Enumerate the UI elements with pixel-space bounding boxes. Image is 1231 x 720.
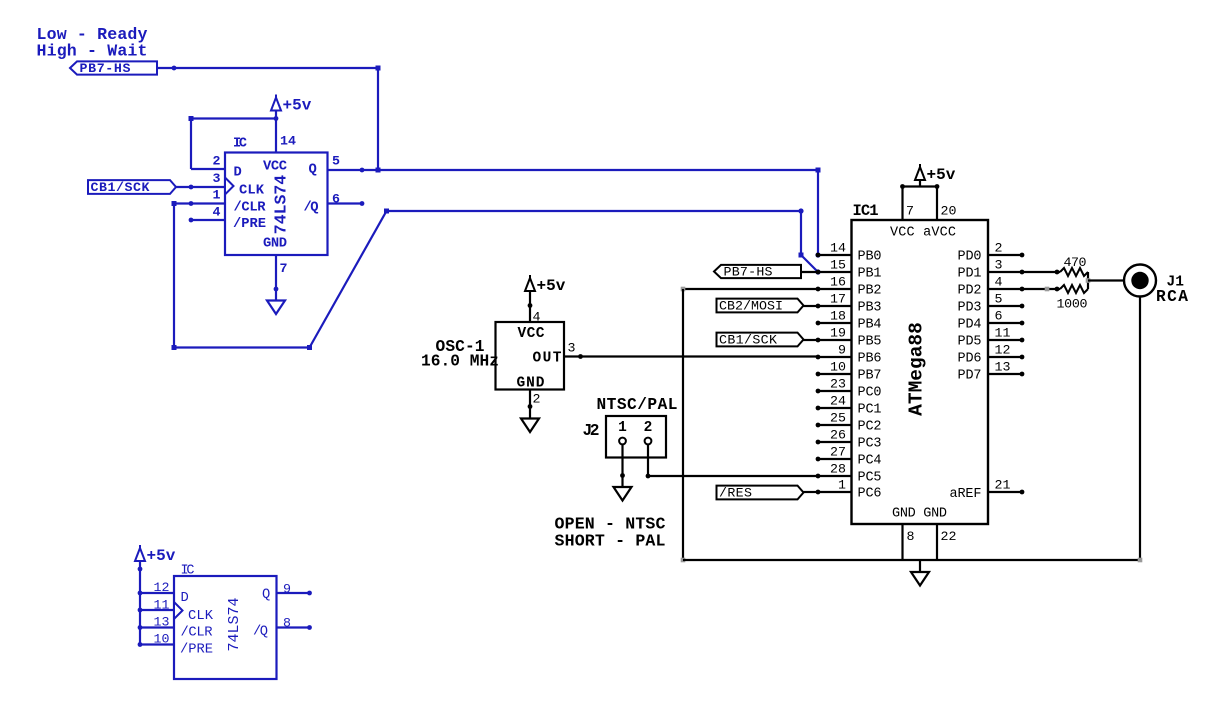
svg-text:/CLR: /CLR [234, 200, 267, 216]
FF1 clock triangle [225, 178, 234, 195]
pin7 number [906, 204, 914, 219]
label NTSC/PAL [597, 396, 678, 414]
svg-text:27: 27 [830, 445, 846, 460]
FF1 pin4 number [213, 205, 221, 220]
svg-text:PB0: PB0 [858, 250, 882, 265]
pin20 number [941, 204, 957, 219]
FF2 CLK label [188, 609, 214, 624]
power +5v OSC [525, 275, 566, 295]
svg-text:21: 21 [995, 478, 1011, 493]
wire FF1 pin5 Q output [328, 168, 819, 173]
svg-text:16: 16 [830, 275, 846, 290]
svg-text:/Q: /Q [253, 624, 268, 640]
wire PD1 to R1 [1022, 270, 1060, 275]
wire /CLR to PB1 horizontal [387, 208, 804, 213]
svg-text:74LS74: 74LS74 [226, 597, 243, 651]
wire vertical PB7-HS down to Q net [377, 68, 379, 170]
svg-text:4: 4 [995, 275, 1003, 290]
svg-text:PC5: PC5 [858, 471, 882, 486]
pin 23 PC0 stub [816, 377, 882, 401]
svg-text:PB4: PB4 [858, 318, 882, 333]
svg-text:10: 10 [154, 632, 170, 647]
svg-text:13: 13 [995, 360, 1011, 375]
pin 19 PB5 stub [816, 326, 882, 350]
mcu aREF label [950, 487, 982, 502]
FF2 clock triangle [174, 602, 183, 619]
wire OSC pin2 GND stub [528, 390, 533, 419]
74LS74 value FF2 (rotated) [226, 597, 243, 651]
svg-text:PD2: PD2 [958, 284, 982, 299]
svg-text:CB1/SCK: CB1/SCK [91, 180, 150, 195]
svg-text:11: 11 [995, 326, 1011, 341]
ground ATMega [911, 572, 929, 586]
FF1 pin7 number [280, 261, 288, 276]
pin 25 PC2 stub [816, 411, 882, 435]
FF1 pin1 number [213, 188, 221, 203]
pin 6 PD4 stub [958, 309, 1025, 333]
svg-text:+5v: +5v [537, 277, 566, 295]
pin 13 PD7 stub [958, 360, 1025, 384]
svg-text:PB5: PB5 [858, 335, 882, 350]
svg-text:9: 9 [838, 343, 846, 358]
svg-text:18: 18 [830, 309, 846, 324]
svg-text:2: 2 [995, 241, 1003, 256]
net flag CB1/SCK (left) [88, 180, 176, 195]
ground OSC [521, 419, 539, 433]
svg-text:7: 7 [280, 261, 288, 276]
svg-text:PB7: PB7 [858, 369, 882, 384]
wire J2 pin1 to ground [620, 445, 625, 488]
svg-text:12: 12 [154, 580, 170, 595]
wire FF2 pin12 D [138, 591, 174, 596]
svg-text:VCC aVCC: VCC aVCC [890, 226, 956, 241]
wire FF1 pin7 GND stub [274, 255, 279, 301]
svg-text:PD4: PD4 [958, 318, 982, 333]
pin 1 PC6 stub [816, 478, 882, 502]
svg-text:/PRE: /PRE [233, 216, 266, 232]
svg-text:PC4: PC4 [858, 454, 882, 469]
label J1 [1167, 275, 1185, 291]
wire FF1 pin2 D [191, 168, 225, 170]
wire FF2 pin9 Q stub [277, 591, 312, 596]
power +5v ATMega [915, 164, 956, 187]
node corner PB2 bottom [681, 558, 686, 563]
svg-text:PB2: PB2 [858, 284, 882, 299]
svg-text:4: 4 [213, 205, 221, 220]
net flag /RES [717, 486, 819, 501]
svg-text:13: 13 [154, 615, 170, 630]
wire PB2 to left [683, 288, 818, 290]
node vertex PD2 wire [1045, 287, 1050, 292]
svg-text:14: 14 [280, 134, 296, 149]
svg-text:24: 24 [830, 394, 846, 409]
wire J2 pin2 to PC5 [648, 475, 818, 477]
FF1 VCC label [263, 160, 287, 175]
note text Low-Ready High-Wait [37, 25, 148, 61]
op FF IC 74LS74 U2 box [174, 576, 277, 679]
svg-text:aREF: aREF [950, 487, 982, 502]
svg-text:IC: IC [181, 564, 195, 579]
FF2 pin12 number [154, 580, 170, 595]
svg-text:PC2: PC2 [858, 420, 882, 435]
wire down to diagonal PB1 [799, 211, 804, 258]
label J2 designator [583, 422, 600, 440]
net flag CB1/SCK (at PB5) [717, 333, 819, 348]
svg-text:1000: 1000 [1057, 297, 1088, 312]
svg-text:11: 11 [154, 598, 170, 613]
pin 15 PB1 stub [816, 258, 882, 282]
svg-text:20: 20 [941, 204, 957, 219]
FF1 /Q label [304, 200, 319, 216]
svg-text:OUT: OUT [533, 351, 562, 367]
74LS74 value FF1 (rotated) [272, 175, 291, 235]
resistor 470 [1060, 255, 1088, 276]
FF1 pin5 number [332, 154, 340, 169]
power +5v FF1 [271, 95, 312, 115]
FF1 pin3 number [213, 171, 221, 186]
svg-text:10: 10 [830, 360, 846, 375]
OSC OUT label [533, 351, 562, 367]
pin 10 PB7 stub [816, 360, 882, 384]
OSC pin3 number [568, 341, 576, 356]
FF2 /PRE label [180, 642, 213, 658]
svg-text:/CLR: /CLR [181, 625, 213, 641]
svg-text:14: 14 [830, 241, 846, 256]
pin 12 PD6 stub [958, 343, 1025, 367]
pin 5 PD3 stub [958, 292, 1025, 316]
pin 16 PB2 stub [816, 275, 882, 299]
wire resistor join vertical [1087, 272, 1089, 289]
svg-text:17: 17 [830, 292, 846, 307]
oscillator OSC-1 box [496, 322, 565, 390]
svg-text:VCC: VCC [263, 160, 287, 175]
svg-text:PD0: PD0 [958, 250, 982, 265]
FF2 pin10 number [154, 632, 170, 647]
svg-text:2: 2 [213, 154, 221, 169]
pin 17 PB3 stub [816, 292, 882, 316]
wire /CLR diagonal [310, 209, 390, 348]
OSC pin2 number [533, 392, 541, 407]
svg-text:9: 9 [283, 582, 291, 597]
svg-text:GND GND: GND GND [892, 507, 947, 522]
wire FF2 pin10 /PRE [138, 642, 174, 647]
svg-text:1: 1 [618, 420, 627, 436]
svg-text:PB1: PB1 [858, 267, 882, 282]
wire PB7-HS flag to corner [157, 66, 378, 71]
pin 14 PB0 stub [816, 241, 882, 265]
label OPEN-NTSC SHORT-PAL [555, 515, 666, 551]
svg-text:PC0: PC0 [858, 386, 882, 401]
FF2 pin9 number [283, 582, 291, 597]
pin 2 PD0 stub [958, 241, 1025, 265]
wire +5v FF2 stem [138, 561, 143, 645]
pin 9 PB6 stub [816, 343, 882, 367]
FF1 GND label [263, 237, 287, 252]
ground J2 [614, 487, 632, 501]
pin 18 PB4 stub [816, 309, 882, 333]
FF2 Q label [262, 588, 270, 603]
J2 pin2 number [644, 420, 653, 436]
svg-text:SHORT - PAL: SHORT - PAL [555, 532, 666, 551]
wire OSC pin3 OUT to PB6 [564, 354, 818, 359]
svg-text:3: 3 [995, 258, 1003, 273]
svg-text:Q: Q [309, 163, 317, 178]
mcu VCC aVCC labels [890, 226, 956, 241]
svg-text:PC6: PC6 [858, 487, 882, 502]
power +5v FF2 [135, 545, 176, 565]
svg-text:IC1: IC1 [853, 202, 879, 220]
svg-text:1: 1 [213, 188, 221, 203]
ATMega88 value (rotated) [906, 322, 928, 416]
svg-text:CLK: CLK [188, 609, 214, 624]
svg-text:+5v: +5v [927, 166, 956, 184]
svg-text:16.0 MHz: 16.0 MHz [421, 353, 499, 371]
svg-text:8: 8 [907, 529, 915, 544]
wire FF1 pin3 CLK [176, 185, 225, 190]
svg-text:D: D [181, 591, 189, 606]
label IC1 designator [853, 202, 879, 220]
label IC designator FF2 [181, 564, 195, 579]
svg-text:+5v: +5v [283, 97, 312, 115]
svg-text:22: 22 [941, 529, 957, 544]
op FF IC 74LS74 U1 box [225, 153, 328, 256]
svg-text:PD7: PD7 [958, 369, 982, 384]
pin 28 PC5 stub [816, 462, 882, 486]
node resistor join [1086, 278, 1091, 283]
connector J1 RCA jack [1124, 265, 1156, 297]
svg-text:PB3: PB3 [858, 301, 882, 316]
wire /CLR bottom horizontal [174, 345, 312, 350]
wire to RCA jack [1088, 279, 1124, 281]
mcu IC1 ATMega88 box [852, 220, 989, 524]
svg-text:IC: IC [233, 137, 247, 152]
FF2 pin13 number [154, 615, 170, 630]
J2 pin2 circle [645, 438, 652, 445]
pin 24 PC1 stub [816, 394, 882, 418]
svg-text:Q: Q [262, 588, 270, 603]
svg-text:3: 3 [213, 171, 221, 186]
node corner Q to PB0 [816, 168, 821, 173]
wire FF2 pin11 CLK [138, 608, 174, 613]
pin22 number [941, 529, 957, 544]
FF1 CLK label [239, 184, 265, 199]
net flag CB2/MOSI [717, 299, 819, 314]
svg-text:28: 28 [830, 462, 846, 477]
FF1 pin6 number [332, 192, 340, 207]
svg-text:25: 25 [830, 411, 846, 426]
pin 3 PD1 stub [958, 258, 1025, 282]
svg-text:PB6: PB6 [858, 352, 882, 367]
J2 pin1 number [618, 420, 627, 436]
svg-text:CLK: CLK [239, 184, 265, 199]
FF1 /PRE label [233, 216, 266, 232]
svg-text:2: 2 [533, 392, 541, 407]
wire FF2 pin8 /Q stub [277, 625, 312, 630]
wire OSC pin4 VCC [528, 291, 533, 322]
OSC GND label [517, 376, 545, 392]
wire D top to VCC [191, 116, 278, 121]
wire mcu ground stem [919, 560, 921, 572]
svg-text:26: 26 [830, 428, 846, 443]
FF2 D label [181, 591, 189, 606]
mcu VCC tab left [900, 184, 905, 220]
wire D up corner [189, 116, 194, 169]
pin 11 PD5 stub [958, 326, 1025, 350]
label IC designator FF1 [233, 137, 247, 152]
OSC pin4 number [533, 310, 541, 325]
FF2 /Q label [253, 624, 268, 640]
OSC VCC label [518, 326, 545, 342]
label RCA [1156, 288, 1188, 306]
svg-text:5: 5 [332, 154, 340, 169]
svg-text:High - Wait: High - Wait [37, 42, 148, 61]
svg-text:RCA: RCA [1156, 288, 1188, 306]
mcu GND GND labels [892, 507, 947, 522]
FF1 D label [234, 166, 242, 181]
svg-text:PC1: PC1 [858, 403, 882, 418]
FF1 pin14 number [280, 134, 296, 149]
net flag PB7-HS (at PB1) [714, 265, 818, 280]
wire FF1 pin14 VCC stub [275, 111, 277, 153]
mcu VCC tab top wire [902, 185, 939, 187]
mcu VCC tab right [935, 184, 940, 220]
FF1 pin2 number [213, 154, 221, 169]
mcu GND tab right [936, 524, 938, 560]
svg-text:/RES: /RES [719, 486, 752, 501]
svg-text:PD3: PD3 [958, 301, 982, 316]
svg-text:CB1/SCK: CB1/SCK [719, 333, 777, 348]
J2 pin1 circle [619, 438, 626, 445]
svg-text:D: D [234, 166, 242, 181]
svg-text:PC3: PC3 [858, 437, 882, 452]
ground FF1 [267, 301, 285, 315]
svg-text:PD5: PD5 [958, 335, 982, 350]
svg-text:15: 15 [830, 258, 846, 273]
wire diagonal into PB1 [801, 255, 821, 275]
node corner PB2 top [681, 287, 686, 292]
wire J2 pin2 down [646, 445, 651, 479]
svg-text:CB2/MOSI: CB2/MOSI [719, 299, 783, 314]
FF1 /CLR label [234, 200, 267, 216]
svg-text:J2: J2 [583, 422, 600, 440]
svg-text:12: 12 [995, 343, 1011, 358]
svg-text:GND: GND [517, 376, 545, 392]
svg-text:1: 1 [838, 478, 846, 493]
wire RCA shield down [1139, 297, 1141, 561]
oscillator OSC-1 labels [421, 338, 499, 371]
wire FF1 pin4 /PRE [189, 218, 225, 223]
wire FF2 pin13 /CLR [138, 625, 174, 630]
wire PB2 vertical down [682, 289, 684, 560]
svg-text:7: 7 [906, 204, 914, 219]
svg-text:VCC: VCC [518, 326, 545, 342]
wire /CLR vertical long [172, 204, 177, 351]
svg-text:23: 23 [830, 377, 846, 392]
wire PD2 to R2 [1022, 287, 1060, 292]
FF1 Q label [309, 163, 317, 178]
svg-text:PB7-HS: PB7-HS [724, 265, 773, 280]
svg-text:470: 470 [1064, 255, 1087, 270]
svg-text:GND: GND [263, 237, 287, 252]
node corner above FF1 [376, 66, 381, 71]
wire Q down to PB0 [815, 170, 820, 258]
resistor 1000 [1057, 285, 1089, 312]
FF2 /CLR label [181, 625, 213, 641]
net flag PB7-HS (top left) [70, 61, 157, 76]
node corner RCA ground [1138, 558, 1143, 563]
svg-text:19: 19 [830, 326, 846, 341]
pin8 number [907, 529, 915, 544]
svg-text:6: 6 [995, 309, 1003, 324]
svg-text:NTSC/PAL: NTSC/PAL [597, 396, 678, 414]
svg-text:PD6: PD6 [958, 352, 982, 367]
pin 21 aREF stub [988, 478, 1024, 495]
wire FF1 pin6 /Q stub [328, 201, 365, 206]
svg-text:ATMega88: ATMega88 [906, 322, 928, 416]
pin 27 PC4 stub [816, 445, 882, 469]
pin 4 PD2 stub [958, 275, 1025, 299]
svg-text:5: 5 [995, 292, 1003, 307]
svg-text:/PRE: /PRE [180, 642, 213, 658]
svg-text:+5v: +5v [147, 547, 176, 565]
wire FF1 pin1 /CLR [172, 201, 226, 206]
wire ground bus horizontal [683, 559, 1140, 561]
svg-text:/Q: /Q [304, 200, 319, 216]
mcu GND tab left [901, 524, 903, 560]
svg-text:PB7-HS: PB7-HS [80, 61, 131, 76]
svg-text:3: 3 [568, 341, 576, 356]
FF2 pin8 number [283, 616, 291, 631]
svg-text:PD1: PD1 [958, 267, 982, 282]
FF2 pin11 number [154, 598, 170, 613]
svg-text:74LS74: 74LS74 [272, 175, 291, 235]
svg-text:2: 2 [644, 420, 653, 436]
connector J2 box [606, 416, 666, 458]
svg-text:4: 4 [533, 310, 541, 325]
pin 26 PC3 stub [816, 428, 882, 452]
